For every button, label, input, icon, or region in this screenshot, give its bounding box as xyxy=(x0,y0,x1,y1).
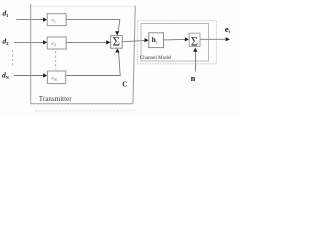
wire c2 to sum xyxy=(66,41,107,43)
wire dN to cN xyxy=(14,75,45,77)
svg-text:Channel Model: Channel Model xyxy=(140,55,172,61)
svg-text:c2: c2 xyxy=(52,41,56,47)
block h xyxy=(149,33,164,48)
wire cN to sum xyxy=(66,52,121,75)
svg-text:hc: hc xyxy=(152,36,158,44)
svg-text:Σ: Σ xyxy=(191,34,198,48)
svg-text:dN: dN xyxy=(2,71,9,81)
block cN xyxy=(47,71,65,84)
wire d1 to c1 xyxy=(17,19,45,21)
svg-text:C: C xyxy=(122,81,127,89)
block c2 xyxy=(47,37,66,49)
channel outer dotted box xyxy=(138,21,217,64)
svg-text:Transmitter: Transmitter xyxy=(39,95,72,103)
block c1 xyxy=(47,14,66,26)
svg-text:Σ: Σ xyxy=(113,34,121,49)
summation U1 xyxy=(111,36,123,49)
svg-text:ei: ei xyxy=(225,24,231,34)
ellipsis between c2 and cN xyxy=(55,51,57,70)
transmitter box xyxy=(31,4,136,104)
wire c1 to sum xyxy=(66,20,120,32)
summation U2 xyxy=(189,33,200,46)
wire n to sum2 xyxy=(195,51,197,71)
wire sum2 to output xyxy=(200,38,226,40)
svg-text:n: n xyxy=(191,74,196,83)
svg-text:d2: d2 xyxy=(3,37,10,47)
svg-text:d1: d1 xyxy=(3,9,10,19)
faint bottom rule xyxy=(35,110,137,112)
wire sum to channel xyxy=(122,40,145,41)
wire h to sum2 xyxy=(164,38,186,41)
svg-text:c1: c1 xyxy=(52,18,56,24)
ellipsis between d2 and dN xyxy=(12,50,14,66)
channel inner box xyxy=(141,24,209,61)
svg-text:cN: cN xyxy=(52,76,57,82)
wire d2 to c2 xyxy=(14,41,45,43)
